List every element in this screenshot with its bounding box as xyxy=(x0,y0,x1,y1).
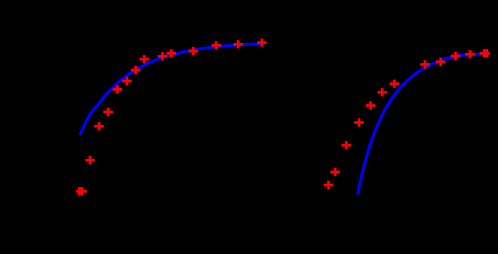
left panel data point 7 xyxy=(122,77,132,85)
right panel data point 8 xyxy=(420,60,430,68)
left panel data point 1 xyxy=(75,187,85,195)
left panel data point 2 xyxy=(77,187,87,195)
right panel data point 7 xyxy=(390,80,400,88)
right panel data point 6 xyxy=(377,88,387,96)
right panel data point 10 xyxy=(451,52,461,60)
right panel data point 3 xyxy=(341,141,351,149)
left panel data point 8 xyxy=(131,66,141,74)
left panel fitted model curve xyxy=(81,44,262,134)
right panel data point 2 xyxy=(330,168,340,176)
left panel data point 10 xyxy=(158,52,168,60)
right panel data point 9 xyxy=(436,58,446,66)
left panel data point 5 xyxy=(103,108,113,116)
left panel data point 6 xyxy=(113,85,123,93)
right panel data point 12 xyxy=(480,49,490,57)
right panel data point 4 xyxy=(354,118,364,126)
left panel data point 13 xyxy=(211,41,221,49)
left panel data point 11 xyxy=(167,49,177,57)
left panel data point 12 xyxy=(189,47,199,55)
right panel data point 5 xyxy=(366,101,376,109)
right panel data point 13 xyxy=(482,49,492,57)
right panel data point 1 xyxy=(324,181,334,189)
right panel data point 11 xyxy=(465,50,475,58)
left panel data point 14 xyxy=(233,40,243,48)
left panel data point 3 xyxy=(85,156,95,164)
left panel data point 4 xyxy=(94,122,104,130)
right panel fitted model curve xyxy=(358,54,485,193)
left panel data point 9 xyxy=(139,55,149,63)
left panel data point 15 xyxy=(257,38,267,46)
